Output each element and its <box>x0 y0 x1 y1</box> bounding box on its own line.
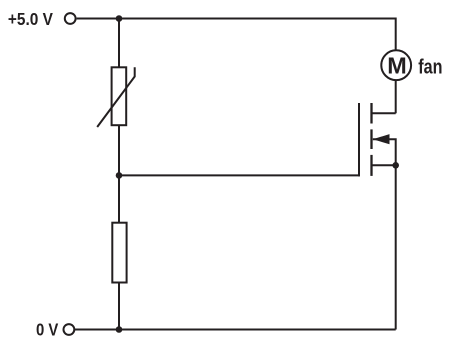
node source junction <box>392 162 399 169</box>
resistor R2 body <box>112 223 126 283</box>
node junction top <box>116 15 123 22</box>
node junction bottom <box>116 326 123 333</box>
svg-text:fan: fan <box>418 56 442 79</box>
thermistor R1 diagonal stroke <box>97 67 135 127</box>
transistor Q1 body arrow <box>373 134 390 144</box>
motor M1 circle <box>381 50 411 80</box>
terminal 0V <box>64 324 75 335</box>
wire resistor to bottom rail <box>118 283 120 330</box>
wire thermistor to middle junction <box>118 125 120 175</box>
wire drain connection <box>372 112 396 114</box>
svg-text:+5.0 V: +5.0 V <box>8 9 53 29</box>
transistor Q1 channel middle bar <box>370 129 372 149</box>
wire source connection <box>372 164 396 166</box>
svg-text:M: M <box>387 53 407 79</box>
transistor Q1 gate bar <box>358 103 360 176</box>
wire middle junction to resistor <box>118 175 120 222</box>
wire bottom rail <box>74 329 395 331</box>
wire junction to thermistor <box>118 19 120 68</box>
wire motor to drain <box>395 80 397 113</box>
node junction middle <box>116 172 123 179</box>
transistor Q1 channel top bar <box>370 103 372 124</box>
svg-text:0 V: 0 V <box>36 320 59 340</box>
wire top rail <box>77 19 396 51</box>
terminal +5V <box>65 13 76 24</box>
transistor Q1 channel bottom bar <box>370 155 372 176</box>
wire gate <box>119 174 360 176</box>
wire body to source rail <box>373 139 396 329</box>
thermistor R1 body <box>112 67 127 125</box>
